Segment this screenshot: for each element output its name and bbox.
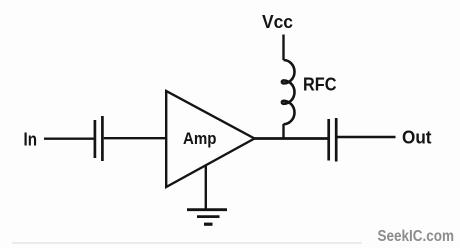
svg-text:RFC: RFC xyxy=(303,74,337,95)
wire inductor to output node xyxy=(282,124,284,140)
wire C2 to Out xyxy=(338,136,396,138)
capacitor C2 left plate xyxy=(327,119,330,161)
svg-text:Amp: Amp xyxy=(183,130,217,148)
inductor RFC coil xyxy=(282,60,295,124)
scan artifact streak xyxy=(12,242,362,244)
capacitor C1 left plate xyxy=(94,120,97,158)
svg-text:Vcc: Vcc xyxy=(262,12,293,32)
wire Vcc to inductor xyxy=(282,35,284,61)
capacitor C2 right plate xyxy=(335,118,338,162)
ground xyxy=(187,210,227,225)
wire input left segment xyxy=(44,137,94,139)
wire amp to ground xyxy=(205,165,207,210)
wire amp output to C2 xyxy=(253,137,328,140)
wire C1 to amp input xyxy=(104,137,166,139)
svg-text:In: In xyxy=(24,128,38,149)
svg-text:Out: Out xyxy=(402,127,432,148)
svg-text:SeekIC.com: SeekIC.com xyxy=(378,228,455,245)
op-amp U1 triangle xyxy=(166,91,254,187)
capacitor C1 right plate xyxy=(101,116,104,161)
